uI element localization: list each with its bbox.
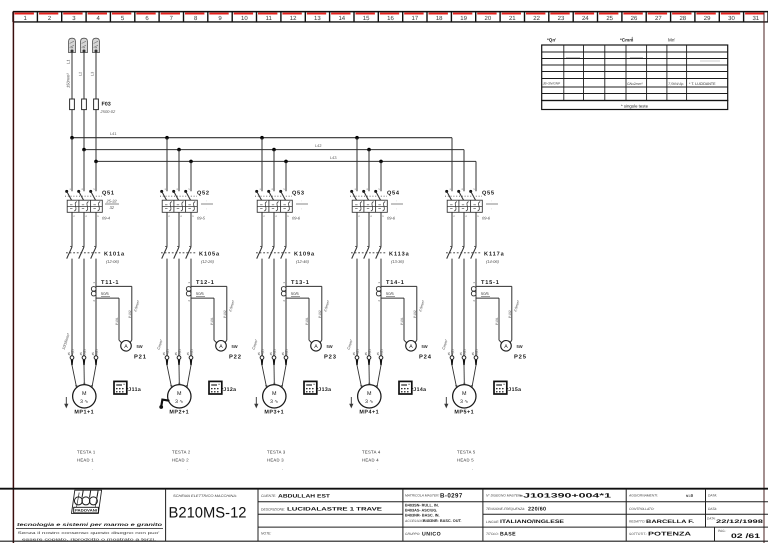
contactor K109a	[256, 246, 315, 264]
svg-text:11: 11	[266, 15, 273, 22]
wire L43 drop to Q55	[475, 161, 477, 191]
svg-text:·: ·	[301, 206, 302, 211]
bus L41	[72, 131, 452, 138]
ruler numbers	[24, 15, 760, 22]
svg-text:25: 25	[606, 15, 613, 22]
svg-text:220/60: 220/60	[528, 507, 546, 513]
svg-text:P101: P101	[210, 317, 214, 325]
wire K113a pole 3 through T14-1	[380, 259, 382, 356]
current transformer T12-1	[186, 280, 236, 344]
wire K101a pole 2 to terminal	[83, 259, 85, 356]
svg-text:·: ·	[472, 467, 474, 472]
svg-text:B403SN- RULL. IN.: B403SN- RULL. IN.	[405, 504, 439, 508]
motor data table	[542, 36, 728, 110]
ground arrow	[64, 397, 68, 408]
svg-text:45: 45	[79, 352, 83, 356]
svg-text:·: ·	[377, 467, 379, 472]
svg-text:J12a: J12a	[223, 387, 236, 393]
svg-text:T11-1: T11-1	[101, 280, 119, 286]
ground lead (flexible)	[159, 400, 168, 409]
K113a pole 2 contact	[364, 247, 369, 259]
svg-text:5(2): 5(2)	[82, 349, 86, 355]
svg-text:·: ·	[206, 206, 207, 211]
right border line	[763, 12, 765, 543]
wire L41 drop to Q54	[356, 138, 358, 192]
svg-text:HEAD 2: HEAD 2	[172, 458, 189, 463]
svg-text:MP3+1: MP3+1	[264, 410, 284, 416]
svg-text:·: ·	[206, 198, 207, 203]
svg-text:B403AS- ASCIUG.: B403AS- ASCIUG.	[405, 509, 437, 513]
wire L41 drop to Q53	[261, 138, 263, 192]
sheet frame ruler	[13, 12, 768, 22]
terminal block J14a	[399, 381, 426, 394]
terminal block J12a	[209, 381, 236, 394]
motor MP1+1	[73, 385, 96, 416]
svg-text:TESTA 1: TESTA 1	[77, 450, 96, 455]
wire K105a pole 3 through T12-1	[190, 259, 192, 356]
svg-text:4(2): 4(2)	[260, 349, 264, 355]
svg-text:MP4+1: MP4+1	[359, 410, 379, 416]
bottom border line	[0, 540, 768, 542]
K105a pole 2 contact	[174, 247, 179, 259]
svg-text:*Qn': *Qn'	[547, 38, 556, 43]
svg-text:30: 30	[728, 15, 735, 22]
svg-text:45: 45	[174, 352, 178, 356]
svg-text:K105a: K105a	[199, 252, 220, 258]
node TESTA 5	[457, 450, 476, 472]
motor terminals	[67, 349, 98, 365]
motor terminals	[352, 349, 383, 365]
svg-text:3 ∿: 3 ∿	[365, 399, 373, 405]
ammeter P24	[406, 341, 432, 361]
svg-text:45: 45	[376, 352, 380, 356]
svg-text:6(2): 6(2)	[189, 349, 193, 355]
wire lead 1 to MP5+1	[452, 365, 457, 387]
svg-text:P21: P21	[134, 354, 147, 361]
svg-text:F03: F03	[102, 102, 111, 108]
svg-text:45: 45	[257, 352, 261, 356]
svg-text:50/5: 50/5	[101, 291, 110, 296]
current transformer T14-1	[376, 280, 426, 344]
svg-text:M: M	[462, 391, 467, 397]
svg-text:SOTTOTIT.:: SOTTOTIT.:	[629, 532, 647, 536]
svg-text:22: 22	[533, 15, 540, 22]
ground arrow	[444, 397, 448, 408]
svg-text:TESTA 5: TESTA 5	[457, 450, 476, 455]
svg-text:24: 24	[582, 15, 589, 22]
junction branch1 L41	[70, 136, 74, 140]
serial cell	[404, 493, 463, 538]
svg-text:TENSIONE-FREQUENZA:: TENSIONE-FREQUENZA:	[486, 507, 525, 511]
svg-text:(14-06): (14-06)	[486, 259, 500, 264]
svg-text:·: ·	[92, 467, 94, 472]
svg-text:5W: 5W	[517, 344, 523, 349]
wire L43 drop to Q52	[190, 161, 192, 191]
wire L41 drop to Q55	[451, 138, 453, 192]
svg-text:DATA:: DATA:	[708, 494, 717, 498]
svg-text:UNICO: UNICO	[422, 531, 441, 537]
svg-text:09-5: 09-5	[197, 216, 206, 221]
wire lead 3 to MP2+1	[187, 365, 191, 387]
wire K109a pole 2 to terminal	[273, 259, 275, 356]
wire K117a pole 3 through T15-1	[475, 259, 477, 356]
junction branch4 L43	[379, 160, 383, 164]
K101a pole 2 contact	[79, 247, 84, 259]
svg-text:09-4: 09-4	[102, 216, 111, 221]
svg-text:T13-1: T13-1	[291, 280, 310, 286]
wire K101a pole 1 to terminal	[71, 259, 73, 356]
breaker Q53	[255, 188, 308, 247]
svg-text:·: ·	[282, 467, 284, 472]
svg-text:M: M	[272, 391, 277, 397]
svg-text:14: 14	[338, 15, 345, 22]
wire K105a pole 2 to terminal	[178, 259, 180, 356]
svg-text:Q52: Q52	[197, 191, 210, 197]
motor MP2+1	[168, 385, 191, 416]
svg-text:MP2+1: MP2+1	[169, 410, 189, 416]
svg-text:3 ∿: 3 ∿	[80, 399, 88, 405]
junction branch2 L42	[177, 148, 181, 152]
svg-text:5(2): 5(2)	[462, 349, 466, 355]
contactor K113a	[351, 246, 410, 264]
svg-text:150mm²: 150mm²	[66, 73, 71, 88]
bus L43	[96, 155, 476, 161]
wire lead 1 to MP4+1	[357, 365, 362, 387]
supply wire labels L1 L2 L3	[66, 60, 95, 88]
svg-text:P23: P23	[324, 354, 337, 361]
breaker Q55	[445, 188, 498, 247]
svg-text:A: A	[504, 344, 508, 350]
svg-text:CONTROLLATO:: CONTROLLATO:	[629, 507, 654, 511]
wire bus elbows to branch 5	[0, 0, 1, 1]
svg-text:L3: L3	[91, 72, 95, 76]
svg-text:45: 45	[459, 352, 463, 356]
svg-text:HEAD 5: HEAD 5	[457, 458, 474, 463]
svg-text:26: 26	[631, 15, 638, 22]
svg-text:K101a: K101a	[104, 252, 125, 258]
svg-text:MP5+1: MP5+1	[454, 410, 474, 416]
svg-text:* T. LUCIDANTE: * T. LUCIDANTE	[689, 82, 716, 86]
wire K113a pole 2 to terminal	[368, 259, 370, 356]
svg-text:CLIENTE:: CLIENTE:	[261, 494, 276, 498]
wire K113a pole 1 to terminal	[356, 259, 358, 356]
svg-text:45: 45	[269, 352, 273, 356]
svg-text:5W: 5W	[422, 344, 428, 349]
svg-text:DESCRIZIONE:: DESCRIZIONE:	[261, 507, 285, 511]
svg-text:T15-1: T15-1	[481, 280, 500, 286]
svg-text:Senza il nostro consenso quest: Senza il nostro consenso questo disegno …	[18, 531, 161, 535]
svg-text:N° DISEGNO MASTER:: N° DISEGNO MASTER:	[486, 494, 521, 498]
svg-text:L1: L1	[66, 60, 71, 64]
svg-text:4(2): 4(2)	[450, 349, 454, 355]
svg-text:P102: P102	[318, 310, 322, 318]
wire L43 drop to Q54	[380, 161, 382, 191]
svg-text:50/5: 50/5	[291, 291, 300, 296]
svg-text:M: M	[82, 391, 87, 397]
svg-text:B210MS-12: B210MS-12	[169, 505, 247, 522]
wire K117a pole 2 to terminal	[463, 259, 465, 356]
svg-text:32: 32	[110, 205, 115, 210]
K113a pole 1 contact	[352, 247, 357, 259]
svg-text:(13-36): (13-36)	[391, 259, 405, 264]
svg-text:REDATTO:: REDATTO:	[629, 520, 645, 524]
svg-text:45: 45	[67, 352, 71, 356]
svg-text:Q51: Q51	[102, 191, 115, 197]
svg-text:5(2): 5(2)	[177, 349, 181, 355]
wire lead 2 to MP2+1	[178, 365, 180, 384]
svg-text:essere copiato, riprodotto o m: essere copiato, riprodotto o mostrato a …	[22, 537, 156, 541]
svg-text:5W: 5W	[232, 344, 238, 349]
ammeter P23	[311, 341, 337, 361]
current transformer T13-1	[281, 280, 331, 344]
svg-text:7,5KW-6p.: 7,5KW-6p.	[668, 82, 684, 86]
wire lead 1 to MP3+1	[262, 365, 267, 387]
wire L43 drop to Q53	[285, 161, 287, 191]
svg-text:45: 45	[352, 352, 356, 356]
junction branch1 L42	[82, 148, 86, 152]
company logo	[72, 490, 102, 513]
svg-text:GNx2mm²: GNx2mm²	[627, 82, 643, 86]
svg-text:NOTE:: NOTE:	[261, 532, 271, 536]
wire lead 3 to MP3+1	[282, 365, 286, 387]
terminal block J13a	[304, 381, 331, 394]
svg-text:PADOVANI: PADOVANI	[75, 509, 97, 513]
svg-text:09-6: 09-6	[387, 216, 396, 221]
svg-text:* singole teste: * singole teste	[621, 104, 649, 109]
svg-text:3 ∿: 3 ∿	[270, 399, 278, 405]
svg-text:29: 29	[704, 15, 711, 22]
wire lead 2 to MP4+1	[368, 365, 370, 384]
wire K109a pole 1 to terminal	[261, 259, 263, 356]
svg-text:P102: P102	[413, 310, 417, 318]
wire lead 2 to MP3+1	[273, 365, 275, 384]
svg-text:MATRICOLA MASTER:: MATRICOLA MASTER:	[405, 494, 440, 498]
svg-text:GRUPPO:: GRUPPO:	[405, 532, 420, 536]
svg-text:31: 31	[752, 15, 759, 22]
motor MP5+1	[453, 385, 476, 416]
wire L42 drop to Q51	[83, 150, 85, 192]
svg-text:3 ∿: 3 ∿	[175, 399, 183, 405]
junction branch3 L41	[260, 136, 264, 140]
svg-text:P22: P22	[229, 354, 242, 361]
wire lead 1 to MP1+1	[72, 365, 77, 387]
svg-text:19: 19	[460, 15, 467, 22]
wire K117a pole 1 to terminal	[451, 259, 453, 356]
svg-text:P101: P101	[400, 317, 404, 325]
svg-text:6(2): 6(2)	[94, 349, 98, 355]
svg-text:Q53: Q53	[292, 191, 305, 197]
junction branch1 L43	[94, 160, 98, 164]
K105a pole 3 contact	[186, 247, 191, 259]
svg-text:P102: P102	[223, 310, 227, 318]
svg-text:A: A	[219, 344, 223, 350]
svg-text:P102: P102	[508, 310, 512, 318]
svg-text:20: 20	[485, 15, 492, 22]
svg-text:HEAD 1: HEAD 1	[77, 458, 94, 463]
wire L42 drop to Q53	[273, 150, 275, 192]
ground arrow	[349, 397, 353, 408]
title block	[0, 489, 768, 542]
junction branch4 L42	[367, 148, 371, 152]
svg-text:P25: P25	[514, 354, 527, 361]
svg-text:12: 12	[290, 15, 297, 22]
svg-text:v=0: v=0	[686, 493, 694, 498]
svg-text:4(2): 4(2)	[70, 349, 74, 355]
svg-text:5(2): 5(2)	[367, 349, 371, 355]
supply connectors X01	[69, 38, 100, 99]
svg-text:13: 13	[314, 15, 321, 22]
svg-text:45: 45	[162, 352, 166, 356]
svg-text:HEAD 3: HEAD 3	[267, 458, 284, 463]
ammeter P25	[501, 341, 527, 361]
motor terminals	[257, 349, 288, 365]
svg-text:BASE: BASE	[500, 531, 516, 537]
client cell	[261, 493, 383, 535]
junction branch2 L41	[165, 136, 169, 140]
svg-text:3 ∿: 3 ∿	[460, 399, 468, 405]
svg-text:4(2): 4(2)	[165, 349, 169, 355]
svg-text:K113a: K113a	[389, 252, 410, 258]
svg-text:T12-1: T12-1	[196, 280, 215, 286]
node TESTA 2	[172, 450, 191, 472]
ammeter P22	[216, 341, 242, 361]
K113a pole 3 contact	[376, 247, 381, 259]
svg-text:5W: 5W	[327, 344, 333, 349]
svg-text:·: ·	[396, 198, 397, 203]
contactor K117a	[446, 246, 505, 264]
svg-text:27: 27	[655, 15, 662, 22]
svg-text:A: A	[409, 344, 413, 350]
svg-text:-J101390+004*1: -J101390+004*1	[519, 493, 612, 500]
svg-text:P101: P101	[495, 317, 499, 325]
drawing master cell	[486, 493, 612, 538]
svg-text:J14a: J14a	[413, 387, 426, 393]
svg-text:(12-06): (12-06)	[106, 259, 120, 264]
svg-text:P101: P101	[305, 317, 309, 325]
svg-text:18: 18	[436, 15, 443, 22]
svg-text:TESTA 3: TESTA 3	[267, 450, 286, 455]
motor MP4+1	[358, 385, 381, 416]
svg-text:45: 45	[91, 352, 95, 356]
K117a pole 2 contact	[459, 247, 464, 259]
svg-text:M: M	[177, 391, 182, 397]
svg-text:K109a: K109a	[294, 252, 315, 258]
svg-text:J11a: J11a	[128, 387, 141, 393]
terminal block J11a	[114, 381, 141, 394]
svg-text:6(2): 6(2)	[474, 349, 478, 355]
svg-text:TITOLO:: TITOLO:	[486, 532, 499, 536]
svg-text:TESTA 4: TESTA 4	[362, 450, 381, 455]
motor terminals	[447, 349, 478, 365]
svg-text:2500-02: 2500-02	[100, 109, 116, 114]
wire lead 2 to MP1+1	[83, 365, 85, 384]
svg-text:50/5: 50/5	[196, 291, 205, 296]
svg-text:POTENZA: POTENZA	[648, 532, 691, 538]
wire lead 3 to MP1+1	[92, 365, 96, 387]
svg-text:·: ·	[491, 206, 492, 211]
svg-text:tecnologia e sistemi per marmo: tecnologia e sistemi per marmo e granito	[17, 522, 162, 527]
wire L41 drop to Q51	[71, 138, 73, 192]
wire L42 drop to Q52	[178, 150, 180, 192]
svg-text:22/12/1998: 22/12/1998	[716, 519, 763, 525]
breaker Q51	[65, 188, 119, 247]
svg-text:P24: P24	[419, 354, 432, 361]
svg-text:23: 23	[558, 15, 565, 22]
wire L42 drop to Q54	[368, 150, 370, 192]
svg-text:45: 45	[186, 352, 190, 356]
svg-text:B403NR- BASC. OUT.: B403NR- BASC. OUT.	[423, 519, 461, 523]
svg-text:(12-46): (12-46)	[296, 259, 310, 264]
K109a pole 2 contact	[269, 247, 274, 259]
svg-text:45: 45	[281, 352, 285, 356]
node TESTA 3	[267, 450, 286, 472]
motto text	[16, 522, 163, 541]
K117a pole 1 contact	[447, 247, 452, 259]
terminal block J15a	[494, 381, 521, 394]
svg-text:P102: P102	[128, 310, 132, 318]
current transformer T15-1	[471, 280, 521, 344]
junction branch3 L42	[272, 148, 276, 152]
svg-text:5W: 5W	[137, 344, 143, 349]
junction branch4 L41	[355, 136, 359, 140]
svg-text:ITALIANO/INGLESE: ITALIANO/INGLESE	[500, 519, 565, 525]
svg-text:A: A	[124, 344, 128, 350]
junction branch2 L43	[189, 160, 193, 164]
svg-text:ABDULLAH EST: ABDULLAH EST	[278, 493, 330, 499]
K101a pole 1 contact	[67, 247, 72, 259]
wire K105a pole 1 to terminal	[166, 259, 168, 356]
svg-text:L41: L41	[110, 131, 117, 136]
svg-text:Q55: Q55	[482, 191, 495, 197]
svg-text:15: 15	[363, 15, 370, 22]
wire lead 3 to MP5+1	[472, 365, 476, 387]
svg-text:Mn': Mn'	[668, 38, 675, 43]
svg-text:L43: L43	[330, 155, 337, 160]
svg-text:·: ·	[301, 198, 302, 203]
svg-text:M: M	[367, 391, 372, 397]
K101a pole 3 contact	[91, 247, 96, 259]
svg-text:A: A	[314, 344, 318, 350]
wire lead 3 to MP4+1	[377, 365, 381, 387]
svg-text:·: ·	[491, 198, 492, 203]
ruler red dashes	[15, 13, 765, 15]
svg-text:L2: L2	[79, 72, 83, 76]
wire lead 2 to MP5+1	[463, 365, 465, 384]
svg-text:BARCELLA F.: BARCELLA F.	[646, 519, 695, 525]
svg-text:6(2): 6(2)	[379, 349, 383, 355]
K117a pole 3 contact	[471, 247, 476, 259]
node TESTA 1	[77, 450, 96, 472]
ammeter P21	[121, 341, 147, 361]
left border line	[12, 12, 14, 543]
motor MP3+1	[263, 385, 286, 416]
svg-text:50/5: 50/5	[386, 291, 395, 296]
K109a pole 3 contact	[281, 247, 286, 259]
contactor K101a	[66, 246, 125, 264]
svg-text:B-0297: B-0297	[440, 493, 463, 500]
svg-text:45: 45	[364, 352, 368, 356]
svg-text:09-6: 09-6	[292, 216, 301, 221]
svg-text:45: 45	[447, 352, 451, 356]
svg-text:5(2): 5(2)	[272, 349, 276, 355]
svg-text:P101: P101	[115, 317, 119, 325]
drawing number cell	[169, 494, 247, 522]
svg-text:·: ·	[187, 467, 189, 472]
svg-text:09-6: 09-6	[482, 216, 491, 221]
fuse F03	[70, 99, 116, 161]
svg-text:DATA:: DATA:	[707, 517, 716, 521]
contactor K105a	[161, 246, 220, 264]
